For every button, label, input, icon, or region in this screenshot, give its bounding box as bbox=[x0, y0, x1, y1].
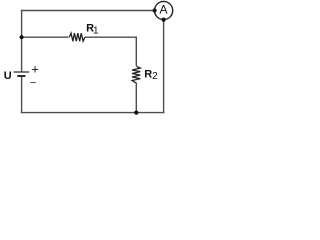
battery U short plate (-) bbox=[17, 75, 25, 77]
wire: inner horizontal right segment bbox=[85, 36, 137, 38]
svg-text:2: 2 bbox=[152, 71, 158, 82]
node: junction dot on left wire bbox=[20, 35, 24, 39]
node: junction dot R2 branch on bottom wire bbox=[134, 111, 138, 115]
resistor R1 zigzag bbox=[69, 33, 85, 41]
svg-text:1: 1 bbox=[93, 25, 99, 36]
wire: left vertical (battery + up to top-left corner) bbox=[21, 10, 23, 72]
wire: bottom horizontal bbox=[21, 112, 164, 114]
wire: inner vertical bottom segment bbox=[135, 83, 137, 113]
ammeter A circle bbox=[155, 1, 173, 19]
svg-text:+: + bbox=[31, 61, 39, 76]
svg-text:−: − bbox=[30, 77, 36, 89]
wire: top horizontal to ammeter bbox=[21, 10, 155, 12]
resistor R2 zigzag bbox=[132, 66, 140, 83]
node: junction dot ammeter to right wire bbox=[162, 18, 166, 22]
wire: right vertical from ammeter down bbox=[163, 20, 165, 114]
svg-text:R: R bbox=[144, 69, 152, 81]
node: junction dot top wire to ammeter bbox=[153, 8, 157, 12]
svg-text:U: U bbox=[4, 70, 12, 82]
wire: inner horizontal left segment bbox=[22, 36, 69, 38]
wire: left vertical (bottom wire up to battery -) bbox=[21, 76, 23, 113]
wire: inner vertical top segment bbox=[135, 37, 137, 67]
battery U long plate (+) bbox=[14, 71, 30, 73]
svg-text:A: A bbox=[159, 3, 167, 17]
